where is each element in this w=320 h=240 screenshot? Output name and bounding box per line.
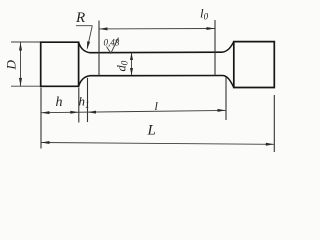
arrow R	[87, 41, 90, 50]
specimen gauge bar bottom line	[90, 75, 224, 77]
dimension line h h1 l	[41, 110, 226, 112]
extension line parallel length right	[225, 77, 227, 120]
dimension line l0	[99, 28, 215, 30]
extension line fillet end h1	[87, 78, 89, 122]
specimen left fillet bottom	[79, 76, 90, 87]
svg-text:R: R	[75, 10, 85, 26]
specimen right fillet bottom	[223, 76, 234, 88]
arrow l0 right	[207, 27, 215, 30]
extension line head right face	[78, 88, 80, 123]
specimen right fillet top	[222, 42, 234, 53]
arrow d0 bottom	[130, 68, 133, 75]
specimen gauge bar top line	[90, 51, 223, 54]
arrow D top	[19, 42, 22, 50]
leader R shoulder	[76, 25, 92, 27]
arrow h right	[70, 111, 78, 114]
roughness check mark	[107, 38, 119, 54]
arrow l right	[218, 109, 226, 112]
svg-text:L: L	[147, 123, 156, 139]
arrow l0 left	[99, 27, 107, 30]
gauge mark left	[98, 21, 100, 76]
specimen left grip head	[41, 42, 79, 86]
gauge mark right	[214, 20, 216, 76]
svg-text:h: h	[56, 95, 63, 110]
specimen right grip head	[234, 42, 274, 88]
arrow L left	[41, 141, 49, 144]
svg-text:0,48: 0,48	[104, 37, 120, 47]
arrow h left	[41, 111, 49, 114]
svg-text:D: D	[4, 60, 19, 71]
arrow L right	[266, 143, 274, 146]
arrow D bottom	[19, 78, 22, 86]
dimension line d0	[131, 53, 133, 75]
arrow l left	[88, 111, 96, 114]
arrow d0 top	[130, 53, 133, 60]
extension line left head (h and L)	[40, 88, 42, 149]
leader R line	[87, 26, 92, 49]
extension line D top	[11, 41, 40, 43]
specimen left fillet top	[79, 42, 90, 53]
extension line right end (L)	[273, 95, 275, 152]
dimension line D	[20, 43, 22, 87]
extension line D bottom	[11, 85, 40, 87]
dimension line L	[41, 143, 274, 145]
